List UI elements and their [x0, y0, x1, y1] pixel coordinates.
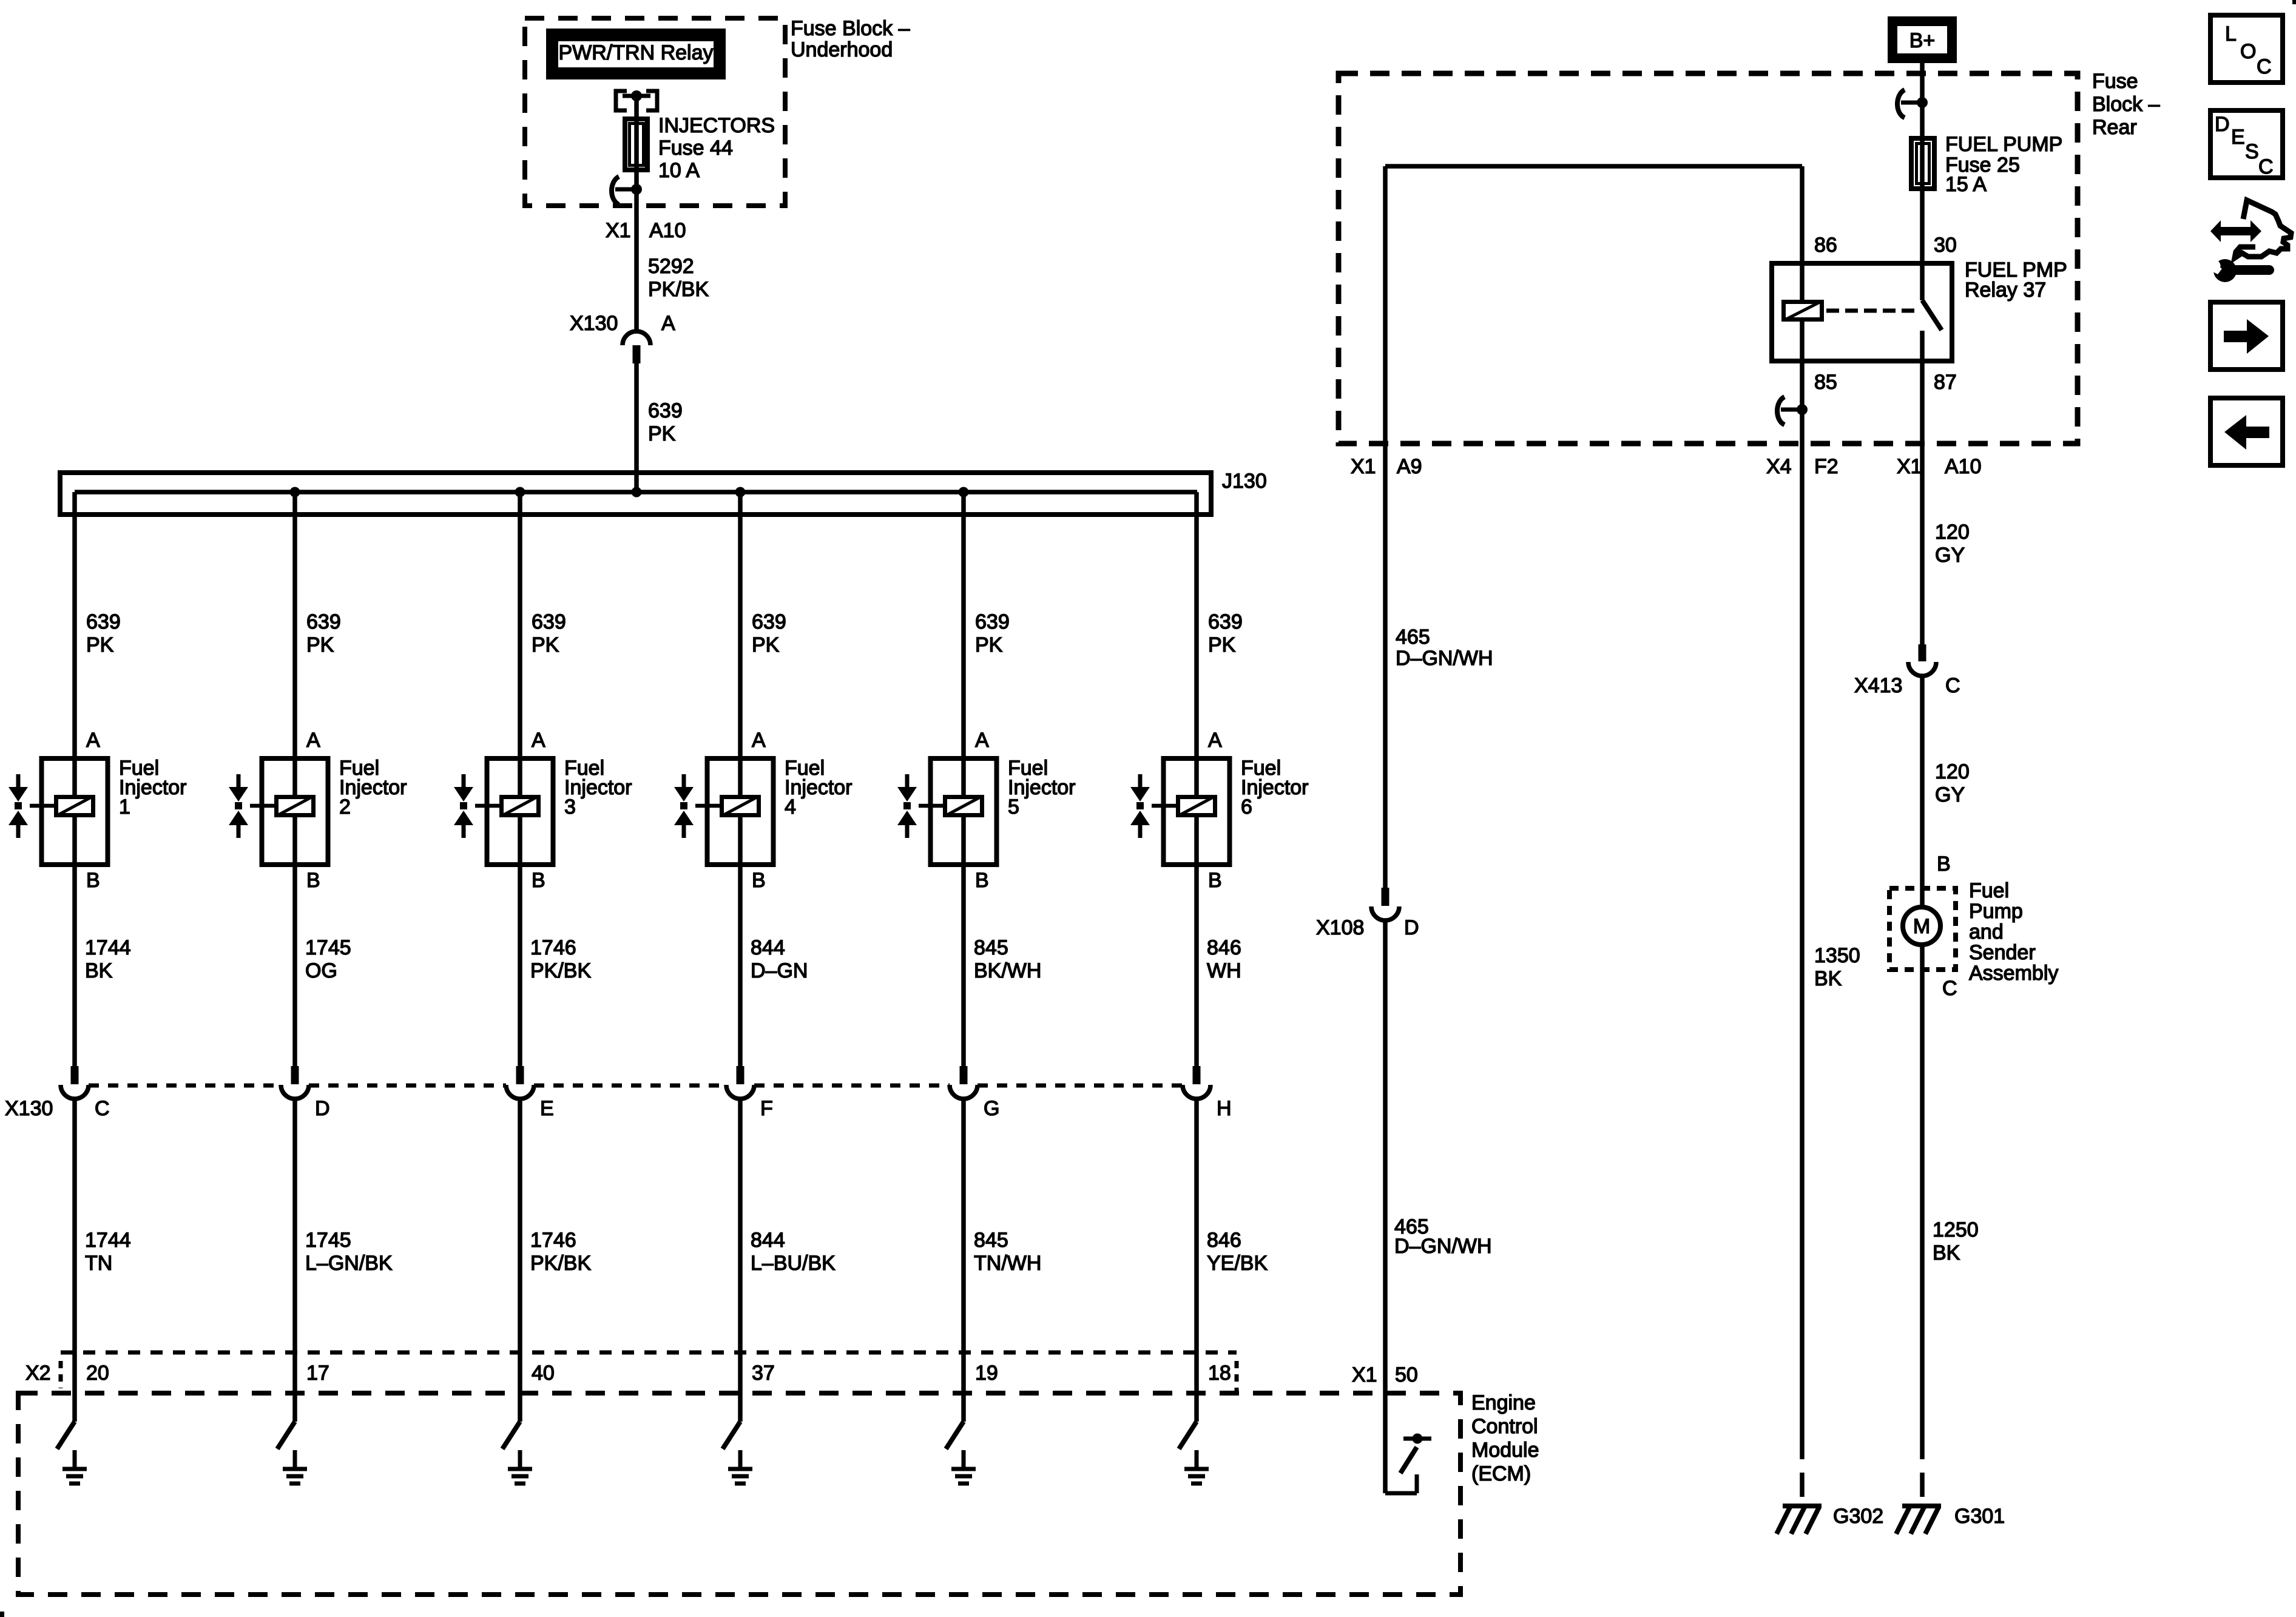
svg-text:A: A	[532, 729, 545, 752]
svg-text:37: 37	[752, 1362, 775, 1385]
wire 1745 L&#8211;GN/BK to ECM pin 17	[292, 1099, 297, 1422]
label X108 D	[1316, 916, 1419, 939]
pin B injector 4	[752, 869, 766, 892]
pin A injector 5	[975, 729, 989, 752]
pin B injector 6	[1208, 869, 1222, 892]
relay K37 FUEL PMP Relay box	[1772, 263, 1952, 361]
svg-text:OG: OG	[305, 959, 337, 982]
svg-text:17: 17	[306, 1362, 329, 1385]
label Fuel Pump and Sender Assembly	[1969, 879, 2058, 985]
svg-text:G301: G301	[1954, 1505, 2005, 1528]
svg-text:15 A: 15 A	[1945, 173, 1987, 196]
svg-text:PK: PK	[1208, 633, 1236, 657]
svg-text:C: C	[2258, 155, 2274, 178]
label ECM pin 19	[975, 1362, 998, 1385]
wire 465 D-GN/WH lower	[1383, 920, 1388, 1493]
svg-text:PWR/TRN Relay: PWR/TRN Relay	[558, 41, 713, 64]
ground inside ECM column 4	[728, 1450, 752, 1484]
svg-text:D–GN/WH: D–GN/WH	[1394, 1235, 1492, 1258]
svg-text:1746: 1746	[530, 936, 576, 959]
svg-text:A: A	[306, 729, 320, 752]
fuel pump and sender assembly dashed box	[1889, 888, 1956, 970]
svg-text:F2: F2	[1814, 455, 1838, 478]
wire 1746 from injector 3	[518, 867, 522, 1066]
svg-text:Module: Module	[1471, 1439, 1539, 1462]
svg-text:4: 4	[785, 795, 796, 819]
label circuit 1744 TN	[85, 1229, 131, 1275]
svg-text:BK: BK	[1814, 967, 1842, 990]
svg-text:B: B	[1208, 869, 1222, 892]
svg-text:L: L	[2225, 22, 2237, 46]
label circuit 1746 PK/BK	[530, 1229, 591, 1275]
svg-text:844: 844	[751, 936, 785, 959]
svg-text:845: 845	[974, 936, 1008, 959]
svg-text:Engine: Engine	[1471, 1391, 1536, 1414]
label circuit 844 D&#8211;GN	[751, 936, 808, 982]
svg-text:Sender: Sender	[1969, 941, 2036, 964]
dashed wire to G301	[1920, 1435, 1925, 1506]
splice pack J130 bus	[60, 473, 1211, 515]
svg-text:86: 86	[1814, 234, 1837, 257]
label X4 F2	[1766, 455, 1838, 478]
label ECM pin 18	[1208, 1362, 1231, 1385]
svg-text:50: 50	[1395, 1363, 1418, 1386]
svg-text:6: 6	[1241, 795, 1252, 819]
ground inside ECM column 2	[283, 1450, 307, 1484]
label ECM pin 37	[752, 1362, 775, 1385]
label circuit 846 YE/BK	[1207, 1229, 1268, 1275]
svg-text:639: 639	[752, 610, 786, 633]
junction dots on J130	[290, 487, 969, 498]
svg-text:Underhood: Underhood	[791, 38, 893, 61]
svg-text:85: 85	[1814, 371, 1837, 394]
svg-text:Block –: Block –	[2092, 93, 2160, 116]
svg-text:120: 120	[1935, 760, 1970, 783]
label pin E	[540, 1097, 554, 1120]
svg-text:Pump: Pump	[1969, 900, 2023, 923]
ground inside ECM column 5	[951, 1450, 976, 1484]
relay 37 switch blade	[1922, 300, 1942, 363]
label pin F	[760, 1097, 773, 1120]
wire 844 from injector 4	[738, 867, 743, 1066]
svg-text:PK: PK	[532, 633, 559, 657]
fuel injector 5	[919, 756, 997, 867]
svg-text:87: 87	[1934, 371, 1957, 394]
svg-text:18: 18	[1208, 1362, 1231, 1385]
label pin 85	[1814, 371, 1837, 394]
connector X130 pin C	[61, 1066, 89, 1099]
svg-text:A: A	[1208, 729, 1222, 752]
label Engine Control Module (ECM)	[1471, 1391, 1539, 1485]
connector X130 pin E	[506, 1066, 534, 1099]
label pin D	[315, 1097, 330, 1120]
svg-text:1250: 1250	[1933, 1218, 1979, 1241]
svg-text:TN: TN	[85, 1252, 112, 1275]
svg-text:X130: X130	[5, 1097, 53, 1120]
svg-text:A: A	[975, 729, 989, 752]
label ECM pin 20	[86, 1362, 109, 1385]
label circuit 639 PK column 6	[1208, 610, 1243, 657]
ECM driver blade pin 40	[502, 1422, 520, 1449]
svg-text:845: 845	[974, 1229, 1008, 1252]
svg-text:C: C	[1945, 674, 1960, 697]
svg-text:20: 20	[86, 1362, 109, 1385]
wire 846 from injector 6	[1194, 867, 1199, 1066]
fuel injector 4	[695, 756, 774, 867]
svg-text:639: 639	[1208, 610, 1243, 633]
label pin C pump	[1942, 977, 1957, 1000]
wire relay coil pin 85 down	[1800, 322, 1805, 1435]
svg-text:1746: 1746	[530, 1229, 576, 1252]
connector X108 pin D	[1371, 888, 1399, 920]
svg-text:X1: X1	[606, 219, 631, 242]
label circuit 120 GY upper	[1935, 521, 1970, 567]
icon back arrow box	[2210, 398, 2283, 465]
fuel injector 1	[30, 756, 108, 867]
injector 3 valve symbol	[454, 774, 473, 838]
svg-text:G302: G302	[1833, 1505, 1883, 1528]
label circuit 639 PK	[648, 399, 683, 445]
svg-text:Fuse Block –: Fuse Block –	[791, 17, 910, 40]
svg-text:J130: J130	[1222, 470, 1267, 493]
wire 639 PK drop to injector 5	[961, 492, 966, 756]
pin B injector 3	[532, 869, 545, 892]
svg-text:FUEL PUMP: FUEL PUMP	[1945, 133, 2062, 156]
svg-text:B: B	[975, 869, 989, 892]
svg-text:639: 639	[86, 610, 121, 633]
svg-text:1350: 1350	[1814, 944, 1860, 967]
svg-text:19: 19	[975, 1362, 998, 1385]
label FUEL PUMP Fuse 25 15 A	[1945, 133, 2062, 196]
label circuit 465 D-GN/WH upper	[1396, 626, 1493, 670]
label X1 A10 rear	[1897, 455, 1982, 478]
svg-text:1745: 1745	[305, 1229, 351, 1252]
ECM driver blade pin 20	[57, 1422, 75, 1449]
label Fuel Injector 1	[119, 757, 187, 819]
svg-text:465: 465	[1396, 626, 1430, 649]
svg-text:639: 639	[648, 399, 683, 422]
connector X130 pin G	[950, 1066, 977, 1099]
label X2	[25, 1362, 51, 1385]
pin A injector 4	[752, 729, 766, 752]
label circuit 844 L&#8211;BU/BK	[751, 1229, 836, 1275]
svg-text:B+: B+	[1909, 29, 1936, 52]
wire 639 PK drop to injector 3	[518, 492, 522, 756]
svg-text:O: O	[2240, 40, 2256, 63]
svg-text:5: 5	[1008, 795, 1019, 819]
wire 639 PK drop to injector 1	[72, 492, 77, 756]
connector X2 dotted boundary	[61, 1352, 1237, 1391]
svg-text:PK/BK: PK/BK	[530, 959, 591, 982]
pin A injector 6	[1208, 729, 1222, 752]
fuel pump motor M	[1903, 907, 1940, 945]
icon LOC box	[2210, 15, 2283, 83]
wire fuse 44 to clip	[634, 170, 639, 206]
svg-text:PK: PK	[752, 633, 780, 657]
wire relay coil pin 86 feed	[1385, 166, 1802, 300]
label circuit 1350 BK	[1814, 944, 1860, 990]
svg-text:1744: 1744	[85, 936, 131, 959]
svg-text:639: 639	[306, 610, 341, 633]
svg-text:F: F	[760, 1097, 773, 1120]
wire 639 PK drop to injector 4	[738, 492, 743, 756]
svg-text:D–GN: D–GN	[751, 959, 808, 982]
svg-text:(ECM): (ECM)	[1471, 1462, 1531, 1485]
wire 845 from injector 5	[961, 867, 966, 1066]
dashed wire to G302	[1800, 1435, 1805, 1506]
svg-text:G: G	[984, 1097, 999, 1120]
svg-text:PK: PK	[306, 633, 334, 657]
injector 1 valve symbol	[8, 774, 28, 838]
label Fuse Block Underhood	[791, 17, 910, 61]
svg-text:PK: PK	[86, 633, 114, 657]
svg-text:10 A: 10 A	[658, 159, 700, 182]
connector X130 pin F	[726, 1066, 754, 1099]
svg-text:D–GN/WH: D–GN/WH	[1396, 647, 1493, 670]
wire relay to fuse 44	[634, 96, 639, 119]
svg-text:A9: A9	[1397, 455, 1422, 478]
wire 639 PK to splice J130	[634, 363, 639, 492]
battery feed B+ box	[1888, 16, 1957, 63]
svg-text:1745: 1745	[305, 936, 351, 959]
svg-text:C: C	[95, 1097, 110, 1120]
svg-text:YE/BK: YE/BK	[1207, 1252, 1268, 1275]
svg-text:A10: A10	[649, 219, 686, 242]
label circuit 639 PK column 3	[532, 610, 566, 657]
wire 1744 from injector 1	[72, 867, 77, 1066]
svg-text:Fuse 44: Fuse 44	[658, 137, 733, 160]
svg-text:X1: X1	[1351, 455, 1376, 478]
label ECM pin 17	[306, 1362, 329, 1385]
label Fuel Injector 2	[339, 757, 407, 819]
ECM dashed box	[18, 1393, 1460, 1595]
svg-text:H: H	[1217, 1097, 1232, 1120]
label Fuel Injector 6	[1241, 757, 1309, 819]
injector 2 valve symbol	[229, 774, 248, 838]
svg-text:2: 2	[339, 795, 351, 819]
svg-text:Fuse: Fuse	[2092, 70, 2138, 93]
connector X130 pin H	[1183, 1066, 1210, 1099]
label pin H	[1217, 1097, 1232, 1120]
label pin G	[984, 1097, 999, 1120]
svg-text:X1: X1	[1897, 455, 1922, 478]
svg-text:INJECTORS: INJECTORS	[658, 114, 775, 137]
ECM driver blade pin 17	[277, 1422, 295, 1449]
svg-text:Assembly: Assembly	[1969, 962, 2058, 985]
wire 120 GY relay 87 to X413	[1920, 363, 1925, 644]
wire 844 L&#8211;BU/BK to ECM pin 37	[738, 1099, 743, 1422]
label circuit 465 D-GN/WH lower	[1394, 1215, 1492, 1258]
ground inside ECM column 3	[508, 1450, 532, 1484]
connector X130 pin A	[623, 331, 650, 363]
label pin 30	[1934, 234, 1957, 257]
injector 5 valve symbol	[897, 774, 917, 838]
svg-text:and: and	[1969, 920, 2004, 944]
svg-text:B: B	[86, 869, 100, 892]
svg-text:B: B	[752, 869, 766, 892]
clip symbol on pin 85 wire	[1777, 397, 1808, 425]
svg-text:40: 40	[532, 1362, 555, 1385]
label circuit 639 PK column 2	[306, 610, 341, 657]
svg-text:E: E	[540, 1097, 554, 1120]
svg-text:Fuel: Fuel	[1969, 879, 2009, 902]
label circuit 120 GY lower	[1935, 760, 1970, 806]
svg-text:A: A	[661, 312, 675, 335]
label X1 50	[1352, 1363, 1418, 1386]
svg-text:X413: X413	[1854, 674, 1902, 697]
wire 1744 TN to ECM pin 20	[72, 1099, 77, 1422]
injector 4 valve symbol	[674, 774, 694, 838]
pin A injector 1	[86, 729, 100, 752]
label circuit 1250 BK	[1933, 1218, 1979, 1264]
svg-text:D: D	[315, 1097, 330, 1120]
PWR/TRN relay output terminal symbol	[616, 90, 657, 110]
label J130	[1222, 470, 1267, 493]
svg-text:844: 844	[751, 1229, 785, 1252]
wire 5292 PK/BK fuse output through X1 A10	[634, 206, 639, 331]
ground G302	[1777, 1506, 1822, 1534]
svg-text:A: A	[86, 729, 100, 752]
label INJECTORS Fuse 44 10 A	[658, 114, 775, 182]
label pin B pump	[1937, 852, 1951, 876]
svg-text:A: A	[752, 729, 766, 752]
svg-text:120: 120	[1935, 521, 1970, 544]
svg-text:GY: GY	[1935, 783, 1965, 806]
label X130 connector row	[5, 1097, 53, 1120]
ground inside ECM column 6	[1184, 1450, 1209, 1484]
svg-text:BK: BK	[1933, 1241, 1960, 1264]
wire 845 TN/WH to ECM pin 19	[961, 1099, 966, 1422]
relay K PWR/TRN Relay box	[546, 29, 726, 79]
svg-text:PK: PK	[648, 422, 676, 445]
wire B+ to fuse 25	[1920, 63, 1925, 136]
ECM driver blade pin 19	[946, 1422, 964, 1449]
label pin 87	[1934, 371, 1957, 394]
svg-text:C: C	[2257, 55, 2272, 78]
pin A injector 2	[306, 729, 320, 752]
svg-text:1744: 1744	[85, 1229, 131, 1252]
wire fuse 25 to relay pin 30	[1920, 191, 1925, 300]
ground inside ECM column 1	[62, 1450, 87, 1484]
svg-text:Relay 37: Relay 37	[1965, 279, 2046, 302]
label circuit 639 PK column 4	[752, 610, 786, 657]
label circuit 639 PK column 1	[86, 610, 121, 657]
label X130 A	[570, 312, 675, 335]
pin A injector 3	[532, 729, 545, 752]
pin B injector 5	[975, 869, 989, 892]
svg-text:M: M	[1913, 915, 1930, 938]
fuse F25 FUEL PUMP Fuse 25 15A	[1911, 136, 1934, 191]
label circuit 1744 BK	[85, 936, 131, 982]
ECM driver blade pin 18	[1179, 1422, 1197, 1449]
wire 120 GY to fuel pump	[1920, 676, 1925, 907]
label pin C	[95, 1097, 110, 1120]
svg-text:X2: X2	[25, 1362, 51, 1385]
label circuit 1746 PK/BK	[530, 936, 591, 982]
svg-text:X4: X4	[1766, 455, 1792, 478]
wire 1250 BK pump to ground	[1920, 945, 1925, 1435]
fuse block underhood dashed box	[525, 18, 785, 206]
label circuit 845 BK/WH	[974, 936, 1041, 982]
label Fuel Injector 4	[785, 757, 853, 819]
pin label X1 A10	[606, 219, 686, 242]
label pin 86	[1814, 234, 1837, 257]
svg-text:PK/BK: PK/BK	[530, 1252, 591, 1275]
relay 37 armature dashed link	[1826, 309, 1917, 313]
label Fuse Block Rear	[2092, 70, 2160, 139]
pin B injector 1	[86, 869, 100, 892]
svg-text:B: B	[532, 869, 545, 892]
ECM driver blade pin 37	[723, 1422, 740, 1449]
label circuit 846 WH	[1207, 936, 1241, 982]
svg-text:GY: GY	[1935, 544, 1965, 567]
svg-text:639: 639	[532, 610, 566, 633]
svg-text:TN/WH: TN/WH	[974, 1252, 1041, 1275]
icon diagnostics double arrow with wrench	[2209, 200, 2292, 282]
svg-text:639: 639	[975, 610, 1010, 633]
svg-text:X130: X130	[570, 312, 618, 335]
wire 465 D-GN/WH upper	[1383, 166, 1388, 888]
label circuit 1745 L&#8211;GN/BK	[305, 1229, 393, 1275]
fuse F44 INJECTORS Fuse 44 10A	[625, 119, 647, 170]
svg-text:X1: X1	[1352, 1363, 1377, 1386]
label circuit 5292 PK/BK	[648, 255, 709, 301]
fuel injector 6	[1152, 756, 1230, 867]
label X1 A9	[1351, 455, 1422, 478]
wire 639 PK drop to injector 2	[292, 492, 297, 756]
pin B injector 2	[306, 869, 320, 892]
svg-text:1: 1	[119, 795, 130, 819]
fuel injector 2	[250, 756, 328, 867]
injector 6 valve symbol	[1130, 774, 1150, 838]
svg-text:846: 846	[1207, 936, 1241, 959]
svg-text:PK: PK	[975, 633, 1003, 657]
connector X130 pin D	[281, 1066, 309, 1099]
icon forward arrow box	[2210, 302, 2283, 370]
svg-text:E: E	[2231, 126, 2245, 149]
label G301	[1954, 1505, 2005, 1528]
svg-text:B: B	[306, 869, 320, 892]
svg-text:BK/WH: BK/WH	[974, 959, 1041, 982]
wire 1745 from injector 2	[292, 867, 297, 1066]
connector X413 pin C	[1908, 644, 1936, 676]
connector X130 dashed body	[89, 1084, 1183, 1088]
label Fuel Injector 3	[564, 757, 632, 819]
label FUEL PMP Relay 37	[1965, 258, 2067, 302]
svg-text:X108: X108	[1316, 916, 1364, 939]
svg-text:PK/BK: PK/BK	[648, 278, 709, 301]
svg-text:5292: 5292	[648, 255, 694, 278]
svg-text:BK: BK	[85, 959, 113, 982]
label circuit 1745 OG	[305, 936, 351, 982]
svg-text:A10: A10	[1945, 455, 1982, 478]
svg-text:846: 846	[1207, 1229, 1241, 1252]
svg-text:C: C	[1942, 977, 1957, 1000]
ECM pin 50 driver symbol	[1385, 1434, 1431, 1494]
clip symbol on B+ feed	[1897, 90, 1928, 118]
wire 1746 PK/BK to ECM pin 40	[518, 1099, 522, 1422]
label X413 C	[1854, 674, 1960, 697]
label ECM pin 40	[532, 1362, 555, 1385]
svg-text:D: D	[2215, 113, 2230, 136]
svg-text:B: B	[1937, 852, 1951, 876]
label circuit 845 TN/WH	[974, 1229, 1041, 1275]
relay 37 coil	[1784, 302, 1822, 320]
fuse block rear dashed box	[1339, 73, 2078, 444]
label Fuel Injector 5	[1008, 757, 1076, 819]
svg-text:Control: Control	[1471, 1415, 1538, 1438]
svg-text:D: D	[1404, 916, 1419, 939]
